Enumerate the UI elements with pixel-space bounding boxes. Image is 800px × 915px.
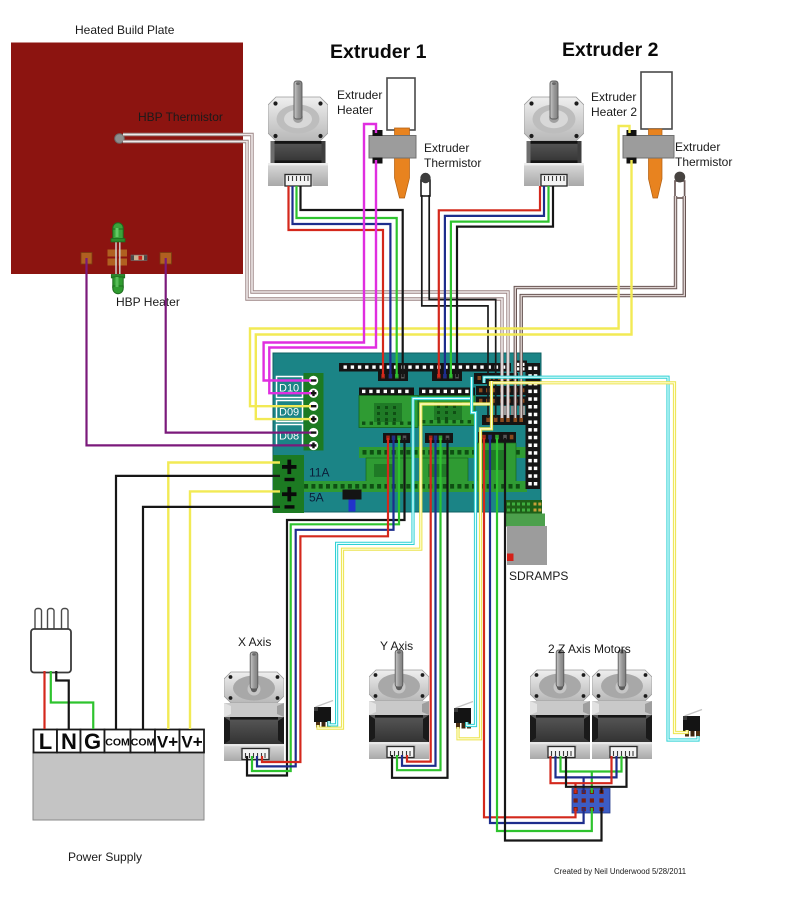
extruder 1 stepper motor bbox=[268, 81, 328, 186]
RAMPS mosfet green block 1 bbox=[366, 458, 414, 482]
reset button bbox=[343, 490, 362, 512]
extruder 1 heater block bbox=[369, 136, 416, 159]
svg-text:X Axis: X Axis bbox=[238, 635, 271, 649]
extruder 2 motor wire red bbox=[439, 186, 540, 377]
Z endstop yellow wire bbox=[491, 383, 688, 733]
X motor wire blue bbox=[257, 438, 394, 766]
Z bus wire green (board to block) bbox=[497, 438, 592, 831]
extruder 1 motor wire red bbox=[289, 186, 384, 377]
RAMPS bottom socket strip 2 bbox=[286, 481, 527, 492]
extruder 1 thermistor wire 1 bbox=[422, 195, 488, 418]
extruder 2 thermistor probe bbox=[674, 172, 685, 198]
Z axis stepper motor 1 bbox=[530, 650, 590, 759]
svg-text:Extruder: Extruder bbox=[424, 141, 469, 155]
extruder 1 thermistor wire 2 bbox=[429, 195, 496, 418]
SDRAMPS header connector bbox=[504, 500, 542, 514]
svg-text:Extruder: Extruder bbox=[591, 90, 636, 104]
svg-text:Created by Neil Underwood 5/28: Created by Neil Underwood 5/28/2011 bbox=[554, 867, 686, 876]
HBP resistor R1 bbox=[131, 255, 147, 261]
stepper driver 1 board bbox=[359, 396, 418, 428]
Z endstop switch bbox=[683, 710, 702, 737]
RAMPS mosfet green block 2 bbox=[420, 458, 468, 482]
svg-text:Extruder: Extruder bbox=[337, 88, 382, 102]
HBP heater center pads bbox=[108, 250, 128, 266]
stepper driver 1 header bbox=[359, 388, 414, 396]
Y motor wire black bbox=[392, 438, 448, 778]
Z bus wire red (board to block) bbox=[484, 438, 576, 817]
HBP heater pad right bbox=[160, 253, 172, 265]
X axis stepper motor bbox=[224, 652, 284, 761]
plug ground green wire bbox=[51, 671, 93, 729]
PSU V+ yellow wire 1 bbox=[168, 463, 280, 730]
X endstop cyan wire bbox=[329, 377, 472, 725]
extruder 2 nozzle (orange) bbox=[649, 129, 663, 198]
extruder 1 thermistor probe bbox=[420, 173, 430, 196]
HBP thermistor bbox=[115, 134, 125, 144]
D09 output box bbox=[277, 401, 303, 422]
power supply terminal row bbox=[34, 730, 205, 753]
Z bus wire black (board to block) bbox=[505, 438, 602, 841]
mains plug bbox=[31, 609, 71, 673]
terminal labels bbox=[39, 729, 203, 754]
HBP thermistor wire 1 bbox=[123, 135, 508, 419]
Y endstop yellow wire bbox=[458, 402, 492, 739]
X motor wire red bbox=[262, 438, 388, 762]
extruder 1 heater magenta wire B bbox=[269, 160, 376, 393]
power input terminal block 11A/5A bbox=[273, 455, 304, 513]
svg-text:SDRAMPS: SDRAMPS bbox=[509, 569, 568, 583]
stepper driver 2 board bbox=[419, 396, 475, 426]
Z motors black link wire bbox=[566, 756, 627, 793]
svg-text:Extruder: Extruder bbox=[675, 140, 720, 154]
extruder 2 stepper motor bbox=[524, 81, 584, 186]
svg-text:Heater 2: Heater 2 bbox=[591, 105, 637, 119]
Y motor wire red bbox=[407, 438, 431, 762]
extruder 1 nozzle (orange) bbox=[395, 128, 410, 198]
X motor wire green bbox=[252, 438, 399, 771]
RAMPS aux pin block top-right bbox=[514, 361, 528, 373]
power supply body bbox=[33, 752, 204, 820]
RAMPS bottom socket strip 1 bbox=[359, 447, 527, 458]
D08 output box bbox=[277, 425, 303, 446]
PSU COM black wire 2 bbox=[143, 507, 280, 729]
svg-text:V+: V+ bbox=[181, 733, 202, 752]
svg-text:G: G bbox=[84, 729, 101, 754]
extruder1 motor connector on board bbox=[378, 372, 408, 382]
extruder 1 motor wire black bbox=[301, 186, 403, 377]
Y endstop cyan wire bbox=[467, 396, 476, 726]
extruder 2 heater yellow wire A bbox=[250, 126, 630, 406]
heated build plate bbox=[11, 43, 243, 275]
svg-text:Thermistor: Thermistor bbox=[675, 155, 732, 169]
svg-text:5A: 5A bbox=[309, 491, 324, 505]
Y endstop switch bbox=[454, 702, 473, 729]
Z axis stepper motor 2 bbox=[592, 650, 652, 759]
extruder 2 heater yellow wire B bbox=[256, 160, 632, 419]
endstop pin header on board bbox=[474, 373, 518, 384]
svg-text:Heated Build Plate: Heated Build Plate bbox=[75, 23, 175, 37]
Z motors red link wire bbox=[551, 756, 612, 793]
svg-text:V+: V+ bbox=[157, 733, 178, 752]
RAMPS board base bbox=[273, 353, 541, 512]
LED leads bbox=[116, 241, 120, 276]
extruder 1 motor wire blue bbox=[293, 186, 391, 377]
extruder 2 thermistor wire 2 bbox=[521, 196, 684, 418]
PSU COM black wire 1 bbox=[116, 476, 280, 729]
Y motor wire blue bbox=[402, 438, 436, 766]
jumper pin grid on board bbox=[476, 386, 526, 415]
Y motor wire green bbox=[397, 438, 441, 770]
LED D1 (top) bbox=[111, 223, 125, 242]
RAMPS top pin header bbox=[339, 363, 511, 372]
svg-text:Heater: Heater bbox=[337, 103, 373, 117]
HBP heater purple wire B bbox=[166, 258, 311, 433]
Y axis stepper motor bbox=[369, 650, 429, 759]
X motor connector on board bbox=[383, 433, 410, 443]
svg-text:HBP Thermistor: HBP Thermistor bbox=[138, 110, 223, 124]
svg-text:COM: COM bbox=[131, 737, 156, 749]
output terminal strip with +/- circles bbox=[304, 373, 324, 451]
stepper driver 2 header bbox=[419, 388, 475, 396]
extruder 1 heater barrel (white insulator) bbox=[387, 78, 415, 130]
extruder 1 motor wire green bbox=[297, 186, 397, 377]
plug neutral black wire bbox=[56, 671, 69, 729]
svg-text:L: L bbox=[39, 729, 52, 754]
Z motors connector on board bbox=[478, 432, 516, 443]
HBP heater pad left bbox=[81, 253, 92, 265]
svg-text:HBP Heater: HBP Heater bbox=[116, 295, 180, 309]
LED D2 (bottom) bbox=[111, 275, 124, 294]
thermistor connector on board bbox=[482, 415, 528, 425]
extruder 2 heater block bbox=[623, 136, 674, 159]
Z couple terminal block bbox=[572, 789, 610, 814]
extruder 2 motor wire green bbox=[451, 186, 549, 377]
Z bus wire blue (board to block) bbox=[490, 438, 584, 823]
PSU V+ yellow wire 2 bbox=[190, 491, 280, 729]
X endstop yellow wire bbox=[318, 381, 492, 728]
extruder 1 heater clips bbox=[373, 130, 383, 136]
X endstop switch bbox=[314, 701, 333, 728]
extruder 2 motor wire black bbox=[457, 186, 553, 377]
svg-text:2 Z Axis Motors: 2 Z Axis Motors bbox=[548, 642, 631, 656]
HBP heater purple wire A bbox=[87, 258, 312, 445]
Z motors blue link wire bbox=[556, 756, 617, 793]
svg-text:Y Axis: Y Axis bbox=[380, 639, 413, 653]
svg-text:D09: D09 bbox=[279, 407, 299, 419]
SD card bbox=[507, 526, 547, 565]
svg-text:Power Supply: Power Supply bbox=[68, 850, 142, 864]
Z motors green link wire bbox=[561, 756, 622, 793]
SDRAMPS board bbox=[504, 514, 545, 527]
X motor wire black bbox=[247, 438, 405, 776]
svg-text:COM: COM bbox=[105, 737, 130, 749]
D10 output box bbox=[277, 377, 303, 398]
RAMPS right double pin header bbox=[526, 363, 541, 489]
Z endstop cyan wire bbox=[484, 377, 698, 740]
extruder 2 thermistor wire 1 bbox=[515, 196, 675, 418]
extruder2 motor connector on board bbox=[432, 372, 462, 382]
Y motor connector on board bbox=[425, 433, 453, 443]
extruder 1 heater magenta wire A bbox=[264, 124, 376, 381]
plug live red wire bbox=[43, 671, 45, 729]
RAMPS green block right bbox=[477, 443, 516, 482]
extruder 2 heater clips bbox=[627, 130, 637, 136]
svg-text:Extruder 2: Extruder 2 bbox=[562, 39, 659, 61]
svg-text:Thermistor: Thermistor bbox=[424, 156, 481, 170]
HBP thermistor wire 2 bbox=[123, 142, 502, 419]
svg-text:N: N bbox=[61, 729, 77, 754]
extruder 2 heater barrel (white insulator) bbox=[641, 72, 672, 129]
svg-text:11A: 11A bbox=[309, 466, 329, 480]
extruder 2 motor wire blue bbox=[445, 186, 544, 377]
svg-text:Extruder 1: Extruder 1 bbox=[330, 41, 427, 63]
